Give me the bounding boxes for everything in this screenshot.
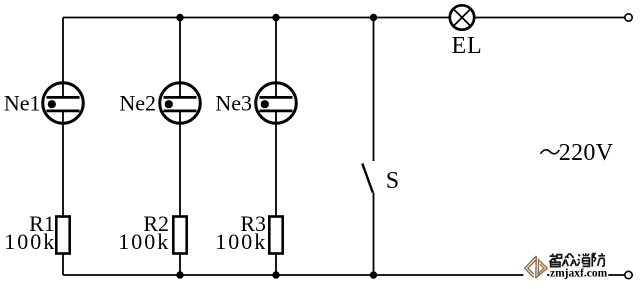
junction bottom Ne2 [176, 271, 183, 278]
wire branch Ne3 upper (top bus to upper electrode) [275, 18, 277, 98]
label ~220V tilde [541, 150, 560, 154]
neon lamp Ne3 electrodes [260, 97, 293, 111]
svg-text:Ne1: Ne1 [4, 91, 41, 116]
lamp EL [450, 5, 474, 29]
terminal top right [625, 14, 632, 21]
neon lamp Ne2 electrodes [164, 97, 197, 111]
junction bottom S [370, 271, 377, 278]
neon lamp Ne2 envelope [160, 83, 201, 124]
neon lamp Ne3 gas dot [261, 100, 269, 108]
svg-text:S: S [386, 168, 399, 194]
wire switch branch upper (top bus to switch) [373, 18, 375, 162]
wire switch branch lower (switch to bottom bus) [373, 193, 375, 276]
junction bottom Ne3 [272, 271, 279, 278]
wire branch Ne1 lower (lower electrode through R1 to bottom bus) [62, 111, 64, 275]
svg-text:100k: 100k [215, 229, 267, 254]
wire branch Ne3 lower (lower electrode through R3 to bottom bus) [275, 111, 277, 275]
wire branch Ne1 upper (top bus to upper electrode) [62, 18, 64, 98]
terminal bottom right [625, 271, 632, 278]
resistor R2 [173, 217, 186, 254]
neon lamp Ne1 envelope [43, 83, 84, 124]
junction top S [370, 14, 377, 21]
neon lamp Ne1 electrodes [47, 97, 80, 111]
neon lamp Ne1 gas dot [48, 100, 56, 108]
svg-text:zmjaxf.com: zmjaxf.com [550, 268, 608, 280]
svg-text:100k: 100k [4, 229, 56, 254]
junction top Ne3 [272, 14, 279, 21]
wire branch Ne2 upper (top bus to upper electrode) [179, 18, 181, 98]
watermark logo backdrop [524, 254, 548, 280]
neon lamp Ne3 envelope [256, 83, 297, 124]
wire top bus [63, 17, 625, 19]
resistor R3 [269, 217, 282, 254]
watermark chinese 智淼消防 [549, 253, 605, 266]
resistor R1 [56, 217, 69, 254]
svg-text:220V: 220V [559, 140, 614, 166]
junction top Ne2 [176, 14, 183, 21]
watermark text backdrop [549, 268, 608, 279]
watermark logo [525, 256, 548, 278]
svg-text:100k: 100k [118, 229, 170, 254]
svg-text:Ne3: Ne3 [215, 91, 252, 116]
wire bottom bus [63, 274, 625, 276]
svg-text:EL: EL [452, 33, 483, 59]
neon lamp Ne2 gas dot [165, 100, 173, 108]
svg-text:Ne2: Ne2 [119, 91, 156, 116]
wire branch Ne2 lower (lower electrode through R2 to bottom bus) [179, 111, 181, 275]
switch S blade [362, 164, 373, 193]
